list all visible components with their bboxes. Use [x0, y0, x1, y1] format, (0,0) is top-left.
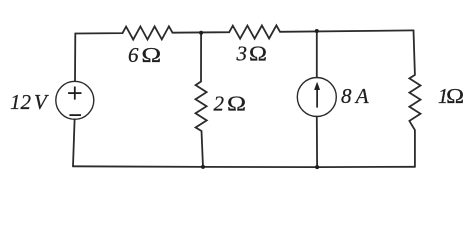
svg-text:Ω: Ω — [249, 42, 267, 65]
svg-text:2: 2 — [214, 92, 225, 116]
svg-text:A: A — [354, 84, 369, 108]
svg-text:3: 3 — [236, 42, 248, 66]
svg-text:Ω: Ω — [446, 85, 464, 108]
svg-text:6: 6 — [128, 43, 139, 67]
svg-text:8: 8 — [341, 84, 352, 108]
svg-text:12: 12 — [10, 90, 32, 114]
svg-text:Ω: Ω — [141, 44, 161, 67]
svg-text:V: V — [34, 90, 49, 114]
svg-text:Ω: Ω — [227, 93, 246, 116]
